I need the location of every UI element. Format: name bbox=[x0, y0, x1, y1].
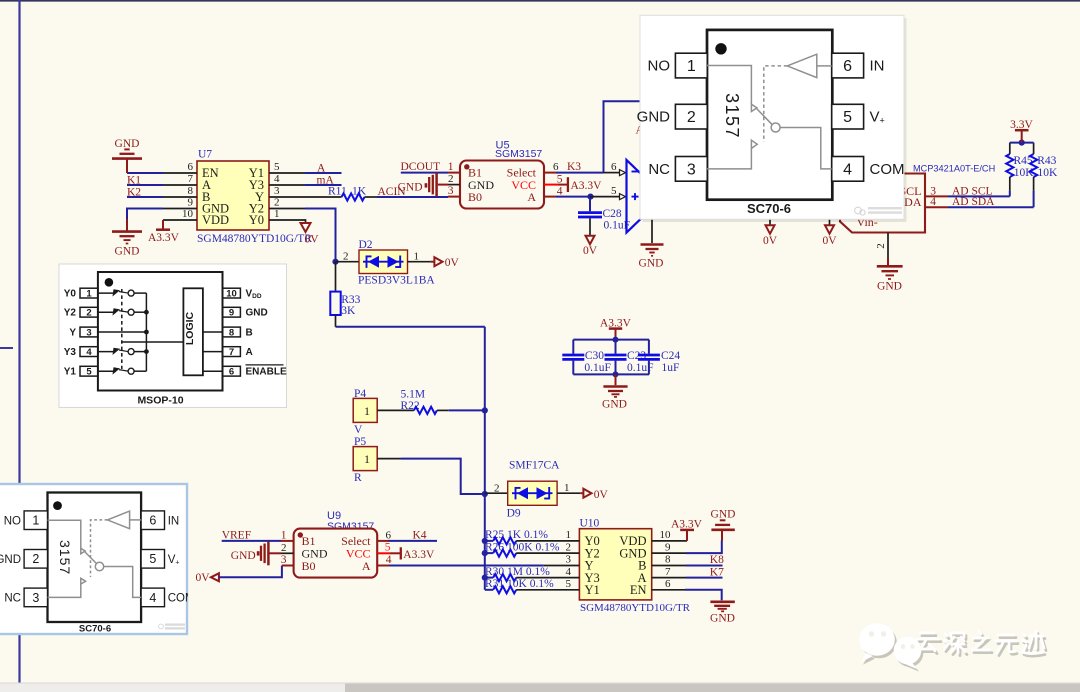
capacitor C24 1uF bbox=[638, 340, 681, 375]
pin U7.3 bbox=[269, 196, 342, 198]
inset1 pin box 5 bbox=[832, 104, 864, 129]
svg-text:A: A bbox=[362, 559, 371, 573]
wire U7.9 to GND bbox=[127, 209, 163, 220]
svg-text:6: 6 bbox=[553, 161, 559, 173]
svg-text:2: 2 bbox=[32, 552, 39, 566]
wire left margin stub bbox=[0, 347, 13, 349]
pin U7.10 bbox=[163, 219, 197, 221]
svg-text:3157: 3157 bbox=[57, 540, 73, 575]
svg-text:0V: 0V bbox=[594, 489, 609, 501]
svg-text:MCP3421A0T-E/CH: MCP3421A0T-E/CH bbox=[913, 164, 995, 174]
node K8 bbox=[686, 554, 724, 566]
svg-text:9: 9 bbox=[665, 541, 671, 553]
inset2 dashed control line bbox=[121, 289, 123, 369]
inset datasheet image MSOP-10 bbox=[59, 264, 287, 408]
svg-text:A3.3V: A3.3V bbox=[403, 549, 435, 561]
svg-text:C24: C24 bbox=[661, 350, 680, 362]
inset1 NC route bbox=[707, 149, 751, 169]
pin U5.6 bbox=[544, 161, 559, 173]
inset1 buffer triangle bbox=[787, 54, 817, 77]
svg-text:ENABLE: ENABLE bbox=[246, 367, 287, 378]
inset2 right pin boxes bbox=[223, 288, 287, 378]
svg-text:3157: 3157 bbox=[722, 93, 742, 139]
svg-text:1: 1 bbox=[687, 58, 696, 75]
svg-text:R: R bbox=[354, 472, 362, 484]
svg-text:10: 10 bbox=[660, 529, 672, 541]
inset3 pin box 2 bbox=[24, 550, 47, 569]
svg-text:Y1: Y1 bbox=[585, 583, 600, 597]
svg-text:0V: 0V bbox=[583, 245, 598, 257]
inset2 LOGIC box bbox=[183, 288, 203, 375]
svg-text:A3.3V: A3.3V bbox=[148, 232, 180, 244]
resistor R31 10K 0.1% bbox=[485, 578, 580, 593]
svg-text:0V: 0V bbox=[196, 572, 211, 584]
ground GND below caps bbox=[602, 374, 628, 410]
wire caps bottom rail bbox=[573, 373, 649, 375]
pin U10.8 bbox=[652, 565, 686, 567]
op-amp U triangle bbox=[627, 160, 665, 233]
svg-text:A: A bbox=[246, 347, 253, 358]
svg-text:Y: Y bbox=[69, 328, 76, 339]
wire U7.6 to GND bbox=[127, 172, 163, 174]
svg-text:K4: K4 bbox=[413, 529, 427, 541]
svg-text:GND: GND bbox=[602, 399, 627, 411]
pin D9.1 bbox=[557, 482, 580, 494]
svg-text:0V: 0V bbox=[445, 257, 460, 269]
diode D2 PESD3V3L1BA bbox=[336, 239, 436, 286]
svg-text:3: 3 bbox=[86, 327, 91, 338]
inset2 pin1 marker dot bbox=[105, 278, 114, 287]
svg-text:5: 5 bbox=[566, 578, 572, 590]
svg-text:6: 6 bbox=[188, 161, 194, 173]
wire main vertical bus bbox=[484, 327, 486, 590]
svg-text:SGM3157: SGM3157 bbox=[495, 148, 542, 160]
node junction D2/R33 bbox=[332, 259, 338, 265]
multiplexer U7 bbox=[182, 149, 312, 246]
wire top sheet border bbox=[0, 0, 1080, 2]
power 0V right of D9 bbox=[580, 489, 608, 501]
svg-text:V: V bbox=[354, 424, 363, 436]
svg-text:10K: 10K bbox=[1038, 167, 1059, 179]
pin U10.6 bbox=[652, 589, 685, 591]
svg-text:0V: 0V bbox=[305, 234, 320, 246]
svg-text:6: 6 bbox=[611, 161, 617, 173]
inset2 switch row4 bbox=[98, 351, 114, 353]
wire U10.6 to GND bbox=[685, 590, 722, 600]
svg-text:PESD3V3L1BA: PESD3V3L1BA bbox=[358, 275, 435, 287]
svg-text:3: 3 bbox=[274, 185, 280, 197]
inset1 switch pole circle bbox=[771, 123, 780, 132]
pin U5.5 bbox=[544, 174, 567, 186]
svg-text:9: 9 bbox=[188, 197, 194, 209]
svg-text:2: 2 bbox=[86, 308, 91, 319]
wire caps top rail bbox=[573, 339, 649, 341]
inset2 switch row1 bbox=[98, 292, 114, 294]
node VREF bbox=[222, 529, 281, 541]
pin U7.9 bbox=[163, 208, 197, 210]
inset1 dashed control line bbox=[764, 66, 787, 142]
svg-text:7: 7 bbox=[229, 347, 234, 358]
pin opamp minus input bbox=[604, 161, 626, 175]
power 0V below C28 bbox=[583, 236, 598, 257]
svg-text:K3: K3 bbox=[567, 161, 581, 173]
svg-text:2: 2 bbox=[687, 109, 696, 126]
wire left sheet border vertical bbox=[18, 0, 20, 683]
svg-text:NC: NC bbox=[4, 593, 21, 605]
inset2 collector vertical bbox=[145, 293, 147, 371]
inset3 NO route bbox=[48, 520, 81, 548]
svg-text:1: 1 bbox=[32, 514, 39, 528]
svg-text:3: 3 bbox=[687, 161, 696, 178]
svg-text:EN: EN bbox=[630, 583, 647, 597]
svg-text:2: 2 bbox=[274, 197, 280, 209]
power A3.3V at U7 pin10 bbox=[148, 220, 180, 244]
svg-text:A: A bbox=[527, 190, 536, 204]
inset1 COM route bbox=[780, 128, 832, 169]
pin D2.1 bbox=[408, 251, 431, 263]
svg-text:6: 6 bbox=[843, 58, 852, 75]
ground GND above U10 bbox=[711, 509, 736, 541]
wire P5 to D9 junction bbox=[401, 459, 485, 494]
inset3 pin box 5 bbox=[141, 550, 164, 569]
svg-text:1: 1 bbox=[281, 529, 287, 541]
pin MCP.3 bbox=[925, 185, 948, 197]
svg-text:2: 2 bbox=[281, 542, 287, 554]
svg-text:NO: NO bbox=[4, 515, 21, 527]
svg-text:B0: B0 bbox=[468, 190, 482, 204]
svg-text:GND: GND bbox=[639, 258, 664, 270]
inset3 chip body bbox=[48, 493, 142, 623]
resistor R30 1M 0.1% bbox=[485, 566, 580, 581]
power A3.3V at U5 pin5 bbox=[568, 177, 602, 192]
inset1 NO route bbox=[707, 66, 751, 105]
svg-text:5: 5 bbox=[385, 542, 391, 554]
wire 0V to U9.3 bbox=[219, 566, 282, 578]
watermark wechat logo and text bbox=[859, 623, 1046, 671]
pin U9.5 bbox=[377, 542, 400, 554]
node junction P5/D9 bus bbox=[482, 491, 488, 497]
svg-text:10K: 10K bbox=[1014, 167, 1035, 179]
port P5 bbox=[353, 436, 377, 484]
svg-text:DCOUT: DCOUT bbox=[401, 161, 441, 173]
svg-text:9: 9 bbox=[229, 308, 234, 319]
inset2 switch row2 bbox=[98, 311, 114, 313]
svg-text:2: 2 bbox=[343, 251, 349, 263]
pin U9.3 bbox=[281, 554, 294, 566]
svg-text:GND: GND bbox=[115, 246, 140, 258]
scrollbar track bbox=[0, 683, 1080, 692]
svg-text:5: 5 bbox=[149, 552, 156, 566]
inset datasheet image SC70-6 top-right bbox=[637, 15, 907, 222]
ground GND sideways at U9 pin2 bbox=[231, 541, 281, 565]
inset3 watermark bbox=[159, 624, 185, 630]
svg-text:NC: NC bbox=[648, 161, 670, 178]
svg-text:0V: 0V bbox=[763, 235, 778, 247]
analog switch U9 SGM3157 bbox=[294, 510, 378, 578]
pin U10.10 bbox=[652, 540, 687, 542]
node K4 bbox=[389, 529, 438, 541]
svg-text:C30: C30 bbox=[585, 350, 604, 362]
power 0V stub right under inset bbox=[822, 218, 837, 247]
svg-text:K7: K7 bbox=[710, 566, 724, 578]
svg-text:R43: R43 bbox=[1037, 155, 1056, 167]
svg-text:Y2: Y2 bbox=[64, 308, 77, 319]
svg-text:3: 3 bbox=[32, 591, 39, 605]
pin MCP.2 bbox=[875, 233, 888, 259]
ground GND below U10 bbox=[710, 602, 735, 625]
ADC U MCP3421A0T-E/CH bbox=[840, 164, 995, 233]
inset1 pin box 3 bbox=[675, 157, 707, 182]
svg-text:GND: GND bbox=[246, 308, 268, 319]
svg-text:1: 1 bbox=[274, 208, 280, 220]
svg-text:4: 4 bbox=[274, 173, 280, 185]
svg-text:GND: GND bbox=[398, 181, 423, 193]
svg-text:3: 3 bbox=[281, 554, 287, 566]
node K3 bbox=[556, 161, 604, 173]
svg-text:6: 6 bbox=[386, 529, 392, 541]
pin U10.7 bbox=[652, 577, 686, 579]
pin P5.1 bbox=[377, 458, 401, 460]
power 3.3V bbox=[1010, 119, 1033, 143]
resistor R25 1K 0.1% bbox=[485, 529, 580, 544]
scrollbar thumb bbox=[345, 684, 1080, 692]
node A bbox=[305, 162, 342, 174]
svg-text:B: B bbox=[246, 328, 253, 339]
node AD_SCL bbox=[948, 185, 1010, 197]
svg-text:LOGIC: LOGIC bbox=[184, 311, 196, 345]
svg-text:10: 10 bbox=[182, 208, 194, 220]
diode D9 SMF17CA bbox=[485, 459, 560, 519]
power A3.3V above caps bbox=[600, 317, 632, 339]
svg-text:0.1uF: 0.1uF bbox=[584, 362, 611, 374]
svg-text:IN: IN bbox=[168, 515, 180, 527]
node DCOUT bbox=[401, 161, 449, 173]
svg-text:3: 3 bbox=[566, 554, 572, 566]
svg-text:Y0: Y0 bbox=[64, 289, 77, 300]
svg-text:0V: 0V bbox=[822, 235, 837, 247]
ground GND below U7 pin9 bbox=[112, 219, 142, 258]
svg-text:GND: GND bbox=[231, 550, 256, 562]
pin U5.2 bbox=[448, 173, 460, 185]
inset3 switch pole circle bbox=[95, 562, 103, 570]
wire opamp feedback bbox=[604, 101, 646, 172]
svg-text:COM: COM bbox=[870, 161, 905, 178]
svg-text:A3.3V: A3.3V bbox=[571, 180, 603, 192]
resistor R22 5.1M bbox=[377, 388, 449, 414]
node junction bus R30 bbox=[482, 575, 488, 581]
node ACIN bbox=[377, 186, 448, 198]
inset1 watermark bbox=[855, 207, 902, 215]
pin U7.4 bbox=[269, 184, 305, 186]
wire U9.4 to U10 pin Y bbox=[389, 565, 544, 567]
svg-text:U7: U7 bbox=[198, 149, 212, 161]
svg-text:Y0: Y0 bbox=[249, 213, 264, 227]
inset3 switch lever bbox=[85, 552, 97, 564]
svg-text:2: 2 bbox=[448, 173, 454, 185]
inset3 COM route bbox=[104, 567, 141, 598]
inset3 NC route bbox=[48, 584, 81, 597]
pin U7.6 bbox=[163, 172, 197, 174]
pin U7.2 bbox=[269, 208, 305, 210]
svg-text:6: 6 bbox=[665, 578, 671, 590]
svg-text:3K: 3K bbox=[341, 305, 356, 317]
pin U10.9 bbox=[652, 552, 686, 554]
node junction caps top bbox=[613, 337, 619, 343]
node mA bbox=[305, 174, 342, 186]
svg-text:2: 2 bbox=[494, 482, 500, 494]
svg-text:5: 5 bbox=[611, 185, 617, 197]
inset3 buffer triangle bbox=[107, 511, 129, 529]
svg-text:IN: IN bbox=[870, 58, 885, 75]
inset3 pin box 4 bbox=[141, 588, 164, 607]
svg-text:4: 4 bbox=[843, 161, 852, 178]
pin U7.1 bbox=[269, 220, 306, 223]
multiplexer U10 bbox=[566, 518, 691, 614]
node AD_SDA bbox=[948, 196, 1034, 208]
resistor R33 3K bbox=[330, 262, 360, 327]
svg-text:C28: C28 bbox=[603, 208, 622, 220]
inset1 pin box 2 bbox=[675, 104, 707, 129]
resistor R43 10K bbox=[1030, 143, 1058, 208]
wire U5.4 to opamp bbox=[556, 196, 590, 198]
inset1 pin box 6 bbox=[832, 53, 864, 78]
inset1 pin box 1 bbox=[675, 53, 707, 78]
svg-text:K8: K8 bbox=[710, 554, 724, 566]
svg-text:6: 6 bbox=[229, 367, 234, 378]
inset2 switch row5 bbox=[98, 370, 114, 372]
inset2 LOGIC outputs bbox=[203, 331, 223, 333]
svg-text:5: 5 bbox=[843, 109, 852, 126]
inset1 chip body bbox=[707, 30, 832, 200]
power A3.3V at U9 pin5 bbox=[401, 547, 435, 561]
svg-text:3: 3 bbox=[448, 185, 454, 197]
svg-text:1: 1 bbox=[86, 288, 92, 299]
inset1 pin1 marker dot bbox=[715, 43, 726, 54]
svg-text:GND: GND bbox=[710, 613, 735, 625]
pin U5.1 bbox=[448, 161, 460, 173]
svg-text:GND: GND bbox=[637, 109, 671, 126]
ground GND below MCP bbox=[877, 258, 903, 293]
svg-text:GND: GND bbox=[877, 281, 902, 293]
svg-text:Y1: Y1 bbox=[64, 367, 77, 378]
power 0V left of U9 bbox=[196, 572, 219, 584]
wire R45 R43 top rail bbox=[1010, 142, 1034, 144]
svg-text:4: 4 bbox=[566, 566, 572, 578]
svg-text:5.1M: 5.1M bbox=[401, 388, 426, 400]
resistor R45 10K bbox=[1006, 143, 1034, 197]
power A3.3V at U10 pin10 bbox=[671, 519, 703, 541]
svg-text:A3.3V: A3.3V bbox=[671, 519, 703, 531]
port P4 bbox=[353, 388, 377, 436]
resistor R11 1K bbox=[328, 186, 377, 201]
svg-text:8: 8 bbox=[665, 554, 671, 566]
svg-text:GND: GND bbox=[711, 509, 736, 521]
svg-text:SMF17CA: SMF17CA bbox=[509, 459, 560, 471]
inset3 dashed control line bbox=[91, 520, 108, 577]
svg-text:GND: GND bbox=[115, 138, 140, 150]
inset3 pin1 marker dot bbox=[53, 501, 62, 510]
svg-text:VDD: VDD bbox=[202, 213, 229, 227]
capacitor C28 0.1uF bbox=[578, 197, 630, 235]
svg-text:Y3: Y3 bbox=[64, 347, 77, 358]
pin U9.4 bbox=[377, 554, 392, 566]
svg-text:MSOP-10: MSOP-10 bbox=[137, 395, 183, 407]
svg-text:7: 7 bbox=[665, 566, 671, 578]
pin U9.1 bbox=[281, 529, 294, 541]
svg-text:5: 5 bbox=[86, 367, 92, 378]
wire R22 to bus bbox=[449, 409, 485, 411]
svg-text:7: 7 bbox=[188, 173, 194, 185]
wire U7.2 down to D2 bbox=[305, 209, 336, 262]
svg-text:1: 1 bbox=[364, 452, 370, 466]
svg-text:SGM48780YTD10G/TR: SGM48780YTD10G/TR bbox=[580, 602, 691, 614]
svg-text:U10: U10 bbox=[580, 518, 600, 530]
ground GND sideways at U5 pin2 bbox=[398, 173, 448, 197]
pin opamp plus input bbox=[590, 185, 626, 199]
svg-text:2: 2 bbox=[875, 243, 887, 249]
svg-text:1: 1 bbox=[414, 251, 420, 263]
resistor R26 100K 0.1% bbox=[485, 541, 580, 556]
svg-text:5: 5 bbox=[274, 161, 280, 173]
inset2 chip body bbox=[98, 272, 223, 391]
svg-text:4: 4 bbox=[386, 554, 392, 566]
inset2 row3 straight bbox=[98, 331, 146, 333]
pin U9.2 bbox=[281, 542, 294, 554]
svg-text:SC70-6: SC70-6 bbox=[747, 201, 791, 216]
power 0V below U7 pin1 bbox=[301, 223, 320, 246]
svg-text:VREF: VREF bbox=[222, 529, 251, 541]
svg-text:1: 1 bbox=[564, 482, 570, 494]
pin U7.5 bbox=[269, 172, 305, 174]
pin U10.3 bbox=[544, 565, 580, 567]
svg-text:GND: GND bbox=[0, 554, 21, 566]
pin U5.4 bbox=[544, 185, 563, 197]
inset3 pin box 6 bbox=[141, 511, 164, 530]
inset datasheet image SC70-6 bottom-left bbox=[0, 484, 195, 635]
svg-text:1: 1 bbox=[364, 404, 370, 418]
inset2 left pin boxes bbox=[64, 288, 98, 378]
node junction bus R26 bbox=[482, 550, 488, 556]
svg-text:3.3V: 3.3V bbox=[1010, 119, 1033, 131]
node K1 bbox=[127, 174, 197, 186]
svg-text:NO: NO bbox=[648, 58, 671, 75]
wire opamp V- down bbox=[651, 210, 653, 243]
svg-text:2: 2 bbox=[566, 541, 572, 553]
ground GND top-left bbox=[112, 138, 142, 173]
svg-text:10: 10 bbox=[226, 288, 237, 299]
svg-text:SGM48780YTD10G/TR: SGM48780YTD10G/TR bbox=[197, 233, 312, 245]
node junction P4 bus bbox=[482, 407, 488, 413]
capacitor C23 0.1uF bbox=[605, 340, 654, 375]
pin MCP.4 bbox=[925, 196, 948, 208]
node junction 3.3V rail bbox=[1019, 140, 1025, 146]
svg-text:8: 8 bbox=[188, 185, 194, 197]
ground GND below opamp bbox=[639, 245, 664, 270]
power 0V right of D2 bbox=[431, 257, 460, 269]
analog switch U5 SGM3157 bbox=[460, 140, 544, 209]
wire U10.9 to GND bbox=[686, 540, 722, 553]
svg-text:8: 8 bbox=[229, 327, 234, 338]
capacitor C30 0.1uF bbox=[562, 340, 611, 375]
svg-text:SGM3157: SGM3157 bbox=[327, 521, 374, 533]
pin U9.6 bbox=[377, 529, 391, 541]
node junction bus R25 bbox=[482, 538, 488, 544]
inset1 pin box 4 bbox=[832, 157, 864, 182]
svg-text:D9: D9 bbox=[507, 508, 521, 520]
svg-text:1: 1 bbox=[448, 161, 454, 173]
svg-text:1: 1 bbox=[566, 529, 572, 541]
node junction C28 bbox=[587, 194, 593, 200]
